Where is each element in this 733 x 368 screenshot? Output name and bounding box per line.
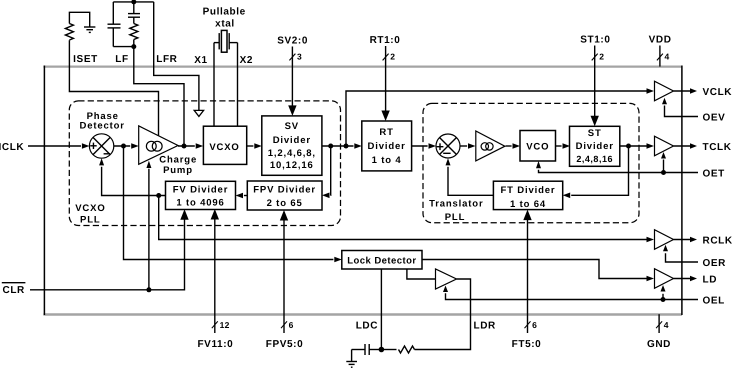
capacitor C-LF2 (series) (128, 2, 140, 24)
wire CLR input (30, 209, 189, 292)
svg-text:xtal: xtal (215, 19, 235, 30)
resistor R-LDR (399, 346, 415, 353)
wire ST output feedback to FT divider (563, 146, 629, 198)
wire FT divider feedback to PD2 (446, 158, 494, 195)
wire resistor to LDC node (381, 349, 396, 351)
svg-text:OER: OER (703, 258, 727, 269)
svg-text:Pump: Pump (163, 165, 193, 176)
FT Divider box (493, 181, 562, 210)
pin ST1:0 (580, 35, 610, 127)
resistor R-LF (series) (130, 24, 138, 47)
svg-text:12: 12 (220, 320, 230, 330)
wire FV output to RCLK buffer (159, 196, 654, 243)
wire LD output (674, 276, 698, 282)
svg-text:CLR: CLR (3, 285, 26, 296)
wire CLR to charge pump (146, 161, 151, 290)
svg-text:6: 6 (289, 320, 294, 330)
resistor R-ISET (65, 24, 73, 41)
crystal Y1 (214, 30, 238, 52)
pin OER (663, 245, 726, 269)
pin CLR (2, 283, 26, 297)
svg-text:Divider: Divider (576, 141, 614, 152)
node loop filter top junction (131, 0, 136, 4)
buffer TCLK (655, 136, 674, 156)
wire lock detector to LDR buffer (407, 269, 436, 279)
svg-text:10,12,16: 10,12,16 (270, 160, 314, 171)
buffer LDR (436, 269, 457, 289)
svg-text:VDD: VDD (649, 35, 672, 46)
pin FV11:0 (197, 209, 233, 350)
amp U-AMP (476, 131, 505, 161)
wire SV output up to VCLK buffer (346, 88, 654, 146)
wire ICLK input (28, 143, 89, 149)
svg-text:VCLK: VCLK (703, 87, 733, 98)
wire RT divider to PD2 (412, 143, 436, 149)
wire X2 (237, 43, 239, 126)
svg-text:2 to 65: 2 to 65 (267, 198, 303, 209)
svg-text:RT: RT (379, 127, 393, 138)
chip outline left edge (43, 66, 45, 316)
wire LDC pin (380, 269, 382, 350)
pin GND (647, 314, 671, 350)
VCXO box (203, 126, 246, 164)
svg-text:VCXO: VCXO (75, 203, 105, 214)
wire PD1 reference tap to lock detector (124, 146, 342, 262)
svg-text:1,2,4,6,8,: 1,2,4,6,8, (268, 148, 316, 159)
wire VCLK output (674, 88, 698, 94)
wire VCXO to SV divider (247, 143, 262, 149)
wire loop filter bottom rail (113, 46, 134, 48)
wire LF pin to charge pump output node (134, 47, 184, 146)
wire OEL to LD buffer (661, 285, 666, 300)
wire charge pump to VCXO (178, 143, 203, 149)
wire TCLK output (674, 143, 698, 149)
pin RT1:0 (370, 35, 401, 121)
svg-text:TCLK: TCLK (703, 142, 732, 153)
svg-text:Detector: Detector (80, 120, 125, 131)
svg-text:VCXO: VCXO (209, 142, 239, 153)
open arrowhead LFR (VCXO tune) (194, 110, 203, 116)
wire RCLK output (674, 237, 698, 243)
chip outline top edge (43, 65, 682, 67)
wire LDR buffer output to LDR pin (415, 279, 471, 350)
wire VCO to ST divider (556, 143, 571, 149)
svg-text:PLL: PLL (445, 212, 466, 223)
pin OET wire (539, 169, 725, 180)
svg-text:ST1:0: ST1:0 (580, 35, 610, 46)
buffer RCLK (655, 230, 674, 250)
svg-text:2: 2 (390, 52, 395, 62)
svg-text:RCLK: RCLK (703, 236, 733, 247)
capacitor C-LDC (352, 344, 382, 355)
SV Divider box (262, 116, 322, 175)
svg-text:LDR: LDR (474, 321, 497, 332)
pin OEL wire (446, 293, 725, 306)
svg-text:2: 2 (599, 52, 604, 62)
node LDC junction (379, 347, 385, 353)
FV Divider box (166, 181, 236, 209)
wire OET to TCLK buffer (661, 152, 666, 173)
svg-text:GND: GND (647, 339, 671, 350)
buffer LD (655, 269, 674, 289)
pin FPV5:0 (266, 210, 304, 350)
label Translator PLL (429, 199, 483, 224)
svg-text:Divider: Divider (273, 135, 311, 146)
wire lock detector to LD buffer (422, 260, 654, 282)
wire OET to VCO (536, 161, 541, 168)
svg-text:4: 4 (665, 52, 670, 62)
svg-text:X2: X2 (240, 55, 253, 66)
wire X1 (213, 43, 215, 126)
svg-text:OEV: OEV (703, 113, 726, 124)
svg-text:X1: X1 (194, 55, 207, 66)
svg-text:RT1:0: RT1:0 (370, 35, 401, 46)
svg-text:SV2:0: SV2:0 (277, 36, 308, 47)
phase detector PD2 (436, 134, 460, 158)
svg-text:ST: ST (588, 128, 602, 139)
ground (LDC) (346, 350, 357, 368)
phase detector PD1 (89, 134, 113, 158)
wire PD2 to amp (460, 143, 476, 149)
svg-text:FPV5:0: FPV5:0 (266, 339, 304, 350)
wire LFR pin path (154, 2, 199, 111)
svg-text:1 to 64: 1 to 64 (510, 199, 546, 210)
wire FPV divider to FV divider (236, 193, 248, 199)
svg-text:Pullable: Pullable (203, 6, 246, 17)
svg-text:Translator: Translator (429, 199, 483, 210)
wire ISET resistor top to ground (69, 12, 89, 26)
Translator PLL dashed box (423, 103, 639, 222)
pin SV2:0 (277, 36, 308, 116)
VCXO PLL dashed box (69, 101, 340, 226)
charge pump U-CP (139, 126, 178, 164)
wire PD1 to charge pump (114, 143, 139, 149)
capacitor C-LF (parallel) (108, 2, 121, 47)
svg-text:ICLK: ICLK (0, 142, 24, 153)
svg-text:FV11:0: FV11:0 (197, 339, 233, 350)
svg-text:FT Divider: FT Divider (501, 185, 556, 196)
svg-text:Divider: Divider (368, 141, 406, 152)
svg-text:2,4,8,16: 2,4,8,16 (576, 154, 613, 164)
RT Divider box (362, 121, 412, 171)
wire ISET pin path into charge pump (69, 40, 158, 136)
svg-text:VCO: VCO (526, 142, 549, 153)
wire FV divider feedback to PD1 (99, 158, 165, 198)
FPV Divider box (247, 181, 322, 210)
svg-text:FV Divider: FV Divider (173, 184, 229, 195)
svg-text:3: 3 (297, 52, 302, 62)
svg-text:FPV Divider: FPV Divider (253, 184, 316, 195)
svg-text:Charge: Charge (159, 154, 197, 165)
pin VDD (649, 35, 672, 67)
wire loop filter top rail (113, 1, 153, 3)
node loop filter bottom junction (131, 44, 136, 49)
chip outline right edge (681, 66, 683, 316)
label VCXO PLL (75, 203, 105, 226)
ground (ISET) (84, 27, 95, 32)
svg-text:LDC: LDC (356, 321, 378, 332)
svg-text:FT5:0: FT5:0 (512, 339, 542, 350)
VCO box (520, 131, 556, 162)
svg-text:Lock Detector: Lock Detector (347, 255, 416, 266)
wire ST divider to TCLK buffer (620, 143, 654, 149)
svg-text:1 to 4: 1 to 4 (372, 155, 402, 166)
svg-text:6: 6 (532, 320, 537, 330)
svg-text:LF: LF (115, 54, 128, 65)
label Pullable xtal (203, 6, 246, 29)
ST Divider box (570, 126, 620, 166)
svg-text:OET: OET (703, 169, 725, 180)
svg-text:SV: SV (285, 121, 299, 132)
pin FT5:0 (512, 210, 542, 350)
buffer VCLK (655, 81, 674, 101)
pin OEV (662, 98, 725, 124)
label Phase Detector (80, 111, 125, 132)
svg-text:LD: LD (703, 275, 718, 286)
svg-text:PLL: PLL (80, 215, 101, 226)
svg-text:LFR: LFR (156, 54, 177, 65)
chip outline bottom edge (43, 313, 682, 315)
Lock Detector box (342, 251, 422, 270)
wire SV output to FPV divider (322, 146, 331, 198)
svg-text:4: 4 (664, 320, 669, 330)
wire amp to VCO (506, 143, 521, 149)
label Charge Pump (159, 154, 197, 176)
wire OEL to LDR buffer (443, 286, 448, 293)
svg-text:1 to 4096: 1 to 4096 (176, 198, 224, 209)
svg-text:OEL: OEL (703, 296, 725, 307)
svg-text:ISET: ISET (73, 54, 98, 65)
wire SV divider to RT divider (322, 143, 362, 149)
